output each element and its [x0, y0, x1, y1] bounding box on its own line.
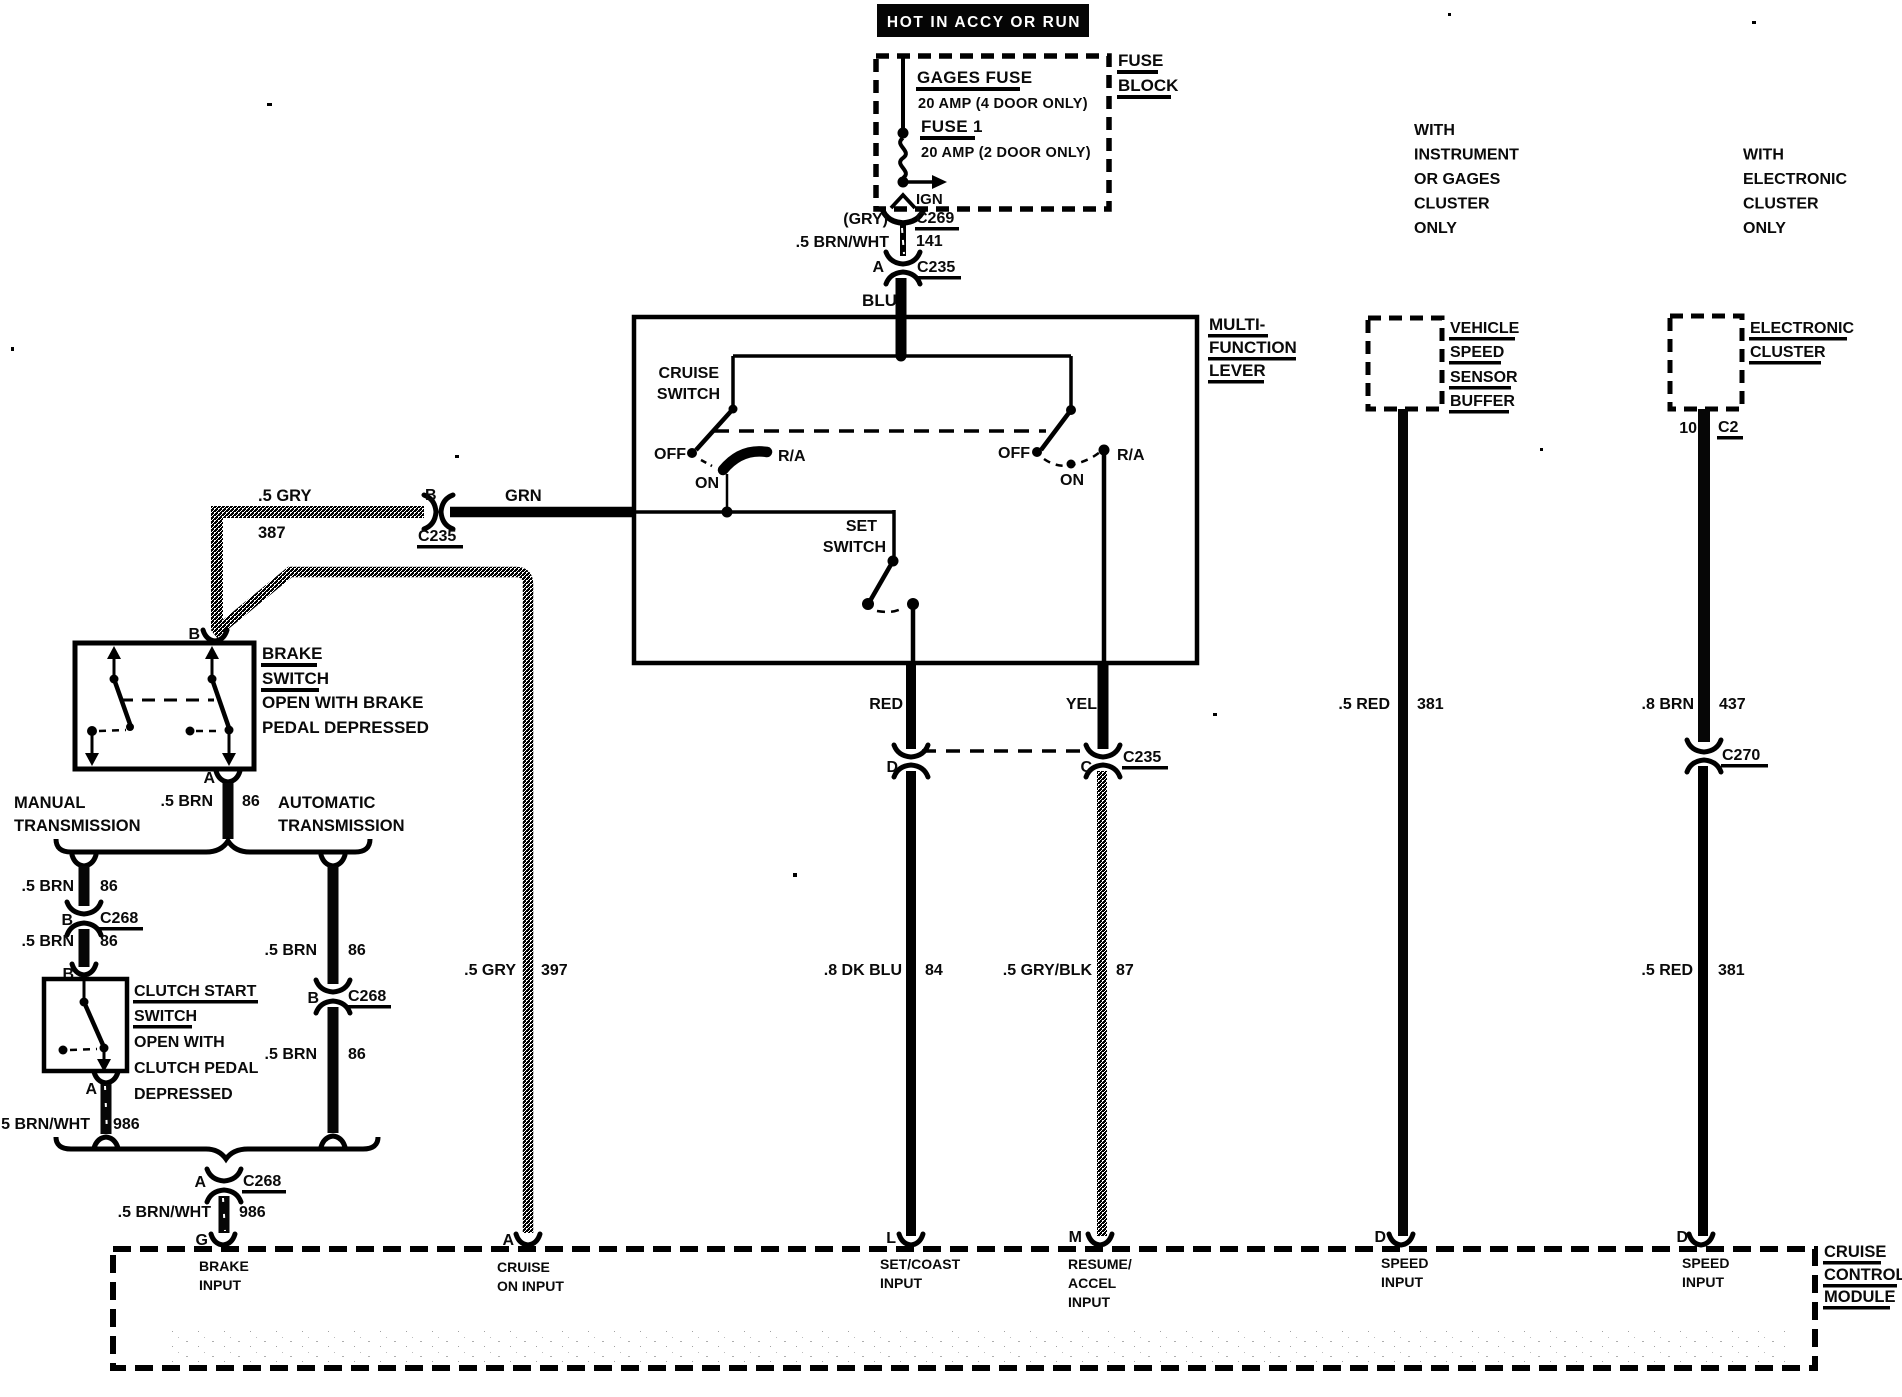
svg-text:.5 BRN/WHT: .5 BRN/WHT: [796, 234, 890, 251]
wire BLU: [862, 278, 901, 356]
label CRUISE CONTROL MODULE: [1823, 1243, 1902, 1310]
fuse output arrow: [905, 175, 947, 189]
wire dashed connector tie: [922, 749, 1090, 753]
terminal D speed input buffer: [1374, 1229, 1428, 1290]
switch cruise on/off right: [1032, 405, 1110, 469]
svg-text:.5 RED: .5 RED: [1338, 696, 1390, 713]
svg-text:.5 GRY/BLK: .5 GRY/BLK: [1003, 962, 1093, 979]
svg-text:.5 BRN: .5 BRN: [161, 793, 213, 810]
wire feed inside fuse block: [901, 58, 905, 130]
svg-text:397: 397: [541, 962, 568, 979]
svg-text:B: B: [307, 990, 319, 1007]
label AUTOMATIC TRANSMISSION: [278, 794, 405, 835]
svg-text:437: 437: [1719, 696, 1746, 713]
svg-text:HOT IN ACCY OR RUN: HOT IN ACCY OR RUN: [887, 14, 1081, 31]
fuse block label: [1117, 51, 1179, 99]
svg-text:C268: C268: [243, 1173, 281, 1190]
terminal A cruise on input: [497, 1232, 564, 1294]
fuse block box: [876, 56, 1109, 209]
svg-text:.5 BRN/WHT: .5 BRN/WHT: [0, 1116, 90, 1133]
svg-text:AUTOMATIC: AUTOMATIC: [278, 794, 376, 812]
label FUSE 1: [920, 117, 983, 140]
svg-text:C268: C268: [348, 988, 386, 1005]
vehicle speed sensor buffer box: [1368, 318, 1442, 409]
svg-text:SWITCH: SWITCH: [823, 539, 886, 556]
connector C269: [796, 210, 959, 251]
svg-text:A: A: [194, 1174, 206, 1191]
wire .5 BRN 86 manual upper: [22, 866, 118, 906]
terminal 10 C2: [1679, 419, 1743, 440]
label .5 GRY 397: [464, 962, 568, 979]
svg-text:C: C: [1080, 759, 1092, 776]
label CRUISE SWITCH: [657, 365, 720, 403]
svg-text:.5 BRN/WHT: .5 BRN/WHT: [118, 1204, 212, 1221]
svg-text:RESUME/: RESUME/: [1068, 1256, 1132, 1272]
svg-text:86: 86: [100, 933, 118, 950]
svg-text:SENSOR: SENSOR: [1450, 369, 1518, 386]
svg-text:BUFFER: BUFFER: [1450, 393, 1515, 410]
svg-text:WITH: WITH: [1414, 122, 1455, 139]
wire .5 BRN/WHT 986 output: [118, 1196, 266, 1233]
svg-text:VEHICLE: VEHICLE: [1450, 320, 1520, 337]
svg-text:86: 86: [100, 878, 118, 895]
svg-text:CLUTCH START: CLUTCH START: [134, 983, 257, 1000]
svg-text:CRUISE: CRUISE: [1824, 1243, 1886, 1261]
svg-text:ON INPUT: ON INPUT: [497, 1278, 564, 1294]
stray scan marks: [11, 13, 1756, 1192]
connector B brake switch: [188, 626, 227, 643]
svg-text:IGN: IGN: [916, 191, 943, 208]
svg-text:.5 BRN: .5 BRN: [22, 878, 74, 895]
switch brake left pole: [85, 646, 134, 766]
svg-text:CLUTCH PEDAL: CLUTCH PEDAL: [134, 1060, 259, 1077]
wire YEL: [1066, 663, 1103, 749]
svg-text:20 AMP (4 DOOR ONLY): 20 AMP (4 DOOR ONLY): [918, 96, 1088, 112]
svg-text:FUNCTION: FUNCTION: [1209, 338, 1297, 357]
svg-text:PEDAL DEPRESSED: PEDAL DEPRESSED: [262, 718, 429, 737]
connector C235 pin B: [424, 495, 453, 529]
switch set: [862, 556, 919, 612]
svg-text:D: D: [1374, 1229, 1386, 1246]
connector A brake switch: [203, 770, 240, 787]
svg-text:C268: C268: [100, 910, 138, 927]
svg-text:986: 986: [113, 1116, 140, 1133]
svg-text:ACCEL: ACCEL: [1068, 1275, 1117, 1291]
svg-text:A: A: [872, 259, 884, 276]
svg-text:TRANSMISSION: TRANSMISSION: [14, 817, 141, 835]
label CLUTCH START SWITCH: [133, 983, 259, 1103]
svg-text:20 AMP (2 DOOR ONLY): 20 AMP (2 DOOR ONLY): [921, 145, 1091, 161]
connector manual branch bottom: [94, 1137, 118, 1148]
node cruise-on junction: [722, 507, 733, 518]
switch brake right pole: [186, 646, 237, 766]
svg-text:YEL: YEL: [1066, 696, 1097, 713]
svg-text:MANUAL: MANUAL: [14, 794, 86, 812]
power label HOT IN ACCY OR RUN: [877, 4, 1089, 37]
svg-text:GAGES FUSE: GAGES FUSE: [917, 68, 1032, 87]
connector C268 pin A: [194, 1169, 286, 1202]
svg-text:OFF: OFF: [654, 446, 686, 463]
svg-text:D: D: [1676, 1229, 1688, 1246]
svg-text:WITH: WITH: [1743, 147, 1784, 164]
svg-text:(GRY): (GRY): [843, 211, 888, 228]
connector A clutch start switch: [85, 1072, 118, 1098]
svg-text:INPUT: INPUT: [199, 1277, 241, 1293]
svg-text:INPUT: INPUT: [880, 1275, 922, 1291]
svg-text:B: B: [425, 487, 437, 504]
wire R/A output: [1102, 452, 1107, 661]
brace split top: [56, 839, 370, 852]
terminal G brake input: [196, 1232, 249, 1293]
svg-text:SWITCH: SWITCH: [262, 669, 329, 688]
connector automatic branch top: [321, 855, 345, 866]
label WITH ELECTRONIC CLUSTER ONLY: [1743, 147, 1847, 238]
svg-text:ONLY: ONLY: [1743, 220, 1786, 237]
svg-text:387: 387: [258, 524, 286, 542]
electronic cluster box: [1670, 316, 1742, 409]
svg-text:BRAKE: BRAKE: [262, 644, 322, 663]
svg-text:.5 BRN: .5 BRN: [22, 933, 74, 950]
switch cruise on/off left: [687, 405, 738, 467]
svg-text:84: 84: [925, 962, 943, 979]
svg-text:86: 86: [242, 793, 260, 810]
svg-text:B: B: [61, 912, 73, 929]
connector C270: [1687, 740, 1768, 772]
svg-text:CLUSTER: CLUSTER: [1414, 196, 1490, 213]
svg-text:C270: C270: [1722, 747, 1760, 764]
connector automatic branch bottom: [321, 1136, 345, 1147]
svg-text:G: G: [196, 1232, 208, 1249]
svg-text:ON: ON: [695, 475, 719, 492]
wire .5 GRY/BLK 87: [1003, 771, 1134, 1236]
svg-text:TRANSMISSION: TRANSMISSION: [278, 817, 405, 835]
svg-text:INSTRUMENT: INSTRUMENT: [1414, 147, 1519, 164]
svg-text:BLU: BLU: [862, 291, 897, 310]
svg-text:D: D: [886, 759, 898, 776]
wire .5 BRN 86 stem: [161, 783, 260, 839]
wire dashed linkage: [714, 429, 1046, 433]
wire GRN: [450, 487, 634, 512]
svg-text:.8 DK BLU: .8 DK BLU: [824, 962, 902, 979]
svg-text:C235: C235: [917, 259, 955, 276]
label VEHICLE SPEED SENSOR BUFFER: [1449, 320, 1520, 414]
clutch start switch box S2: [44, 979, 127, 1071]
wire brake linkage dashed: [120, 699, 214, 702]
label SET SWITCH: [823, 518, 886, 556]
svg-text:LEVER: LEVER: [1209, 361, 1266, 380]
connector C268 pin B automatic: [307, 980, 391, 1013]
svg-text:R/A: R/A: [778, 448, 806, 465]
svg-text:CRUISE: CRUISE: [659, 365, 720, 382]
scan speckle band: [170, 1330, 1790, 1364]
svg-text:SWITCH: SWITCH: [657, 386, 720, 403]
connector C268 pin B manual: [61, 902, 143, 935]
label MULTI-FUNCTION LEVER: [1208, 315, 1297, 384]
svg-text:86: 86: [348, 1046, 366, 1063]
svg-text:L: L: [886, 1230, 896, 1247]
multi-function lever box U2: [634, 317, 1197, 663]
switch clutch start: [59, 981, 112, 1072]
node BLU feed junction: [896, 351, 907, 362]
svg-text:M: M: [1069, 1229, 1082, 1246]
cruise control module box: [113, 1249, 1815, 1368]
svg-text:ON: ON: [1060, 472, 1084, 489]
svg-text:GRN: GRN: [505, 487, 542, 505]
svg-text:SPEED: SPEED: [1381, 1255, 1428, 1271]
wire set output: [911, 604, 916, 661]
svg-text:CLUSTER: CLUSTER: [1750, 344, 1826, 361]
svg-text:141: 141: [916, 233, 943, 250]
wire set switch drop: [892, 510, 896, 556]
svg-text:FUSE 1: FUSE 1: [921, 117, 983, 136]
svg-text:.5 BRN: .5 BRN: [265, 942, 317, 959]
svg-text:C269: C269: [916, 210, 954, 227]
svg-text:OR GAGES: OR GAGES: [1414, 171, 1501, 188]
svg-text:BLOCK: BLOCK: [1118, 76, 1179, 95]
switch R/A arc left: [723, 451, 767, 470]
svg-text:ELECTRONIC: ELECTRONIC: [1750, 320, 1854, 337]
terminal IGN: [891, 191, 943, 208]
svg-text:A: A: [502, 1232, 514, 1249]
svg-text:381: 381: [1417, 696, 1444, 713]
svg-text:INPUT: INPUT: [1682, 1274, 1724, 1290]
svg-text:381: 381: [1718, 962, 1745, 979]
wire .5 RED 381 cluster: [1641, 766, 1744, 1236]
wire RED: [869, 663, 911, 749]
svg-text:INPUT: INPUT: [1068, 1294, 1110, 1310]
label MANUAL TRANSMISSION: [14, 794, 141, 835]
terminal M resume/accel input: [1068, 1229, 1132, 1310]
connector B clutch start switch: [62, 964, 96, 983]
svg-text:SWITCH: SWITCH: [134, 1008, 197, 1025]
connector manual branch top: [72, 855, 96, 866]
svg-text:C2: C2: [1718, 419, 1739, 436]
connector C235 pin D: [886, 745, 928, 777]
connector C235 pin C: [1080, 745, 1168, 777]
wire right drop: [1069, 356, 1073, 407]
svg-text:RED: RED: [869, 696, 903, 713]
svg-text:FUSE: FUSE: [1118, 51, 1163, 70]
svg-text:CRUISE: CRUISE: [497, 1259, 550, 1275]
svg-text:.5 RED: .5 RED: [1641, 962, 1693, 979]
wire .5 BRN/WHT 986 manual: [0, 1084, 140, 1134]
svg-text:MULTI-: MULTI-: [1209, 315, 1265, 334]
svg-text:B: B: [188, 626, 200, 643]
terminal L set/coast input: [880, 1230, 961, 1291]
wire cruise-on branch: [214, 572, 528, 1233]
svg-text:A: A: [203, 770, 215, 787]
label WITH INSTRUMENT OR GAGES CLUSTER ONLY: [1414, 122, 1519, 237]
wire top rail: [733, 354, 1071, 358]
svg-text:SPEED: SPEED: [1450, 344, 1504, 361]
svg-text:86: 86: [348, 942, 366, 959]
svg-text:CLUSTER: CLUSTER: [1743, 196, 1819, 213]
svg-text:A: A: [85, 1081, 97, 1098]
svg-text:MODULE: MODULE: [1824, 1288, 1896, 1306]
wire .5 BRN 86 automatic upper: [265, 866, 366, 984]
svg-text:SPEED: SPEED: [1682, 1255, 1729, 1271]
svg-text:.5 GRY: .5 GRY: [258, 487, 312, 505]
svg-text:INPUT: INPUT: [1381, 1274, 1423, 1290]
wire .8 DK BLU 84: [824, 771, 943, 1236]
connector C235 pin A: [872, 252, 961, 284]
svg-text:ELECTRONIC: ELECTRONIC: [1743, 171, 1847, 188]
wire .5 RED 381 buffer: [1338, 409, 1443, 1236]
label B C235: [417, 487, 463, 549]
wire .8 BRN 437: [1642, 409, 1746, 742]
wire .5 BRN 86 automatic lower: [265, 1007, 366, 1133]
svg-text:OPEN WITH BRAKE: OPEN WITH BRAKE: [262, 693, 424, 712]
svg-text:DEPRESSED: DEPRESSED: [134, 1086, 233, 1103]
label GAGES FUSE: [916, 68, 1032, 91]
wire lower rail: [634, 510, 894, 514]
svg-text:BRAKE: BRAKE: [199, 1258, 249, 1274]
svg-text:.5 BRN: .5 BRN: [265, 1046, 317, 1063]
wire ON stem left: [726, 474, 729, 512]
wire .5 BRN 86 manual lower: [22, 929, 118, 967]
svg-text:OFF: OFF: [998, 445, 1030, 462]
fuse GAGES FUSE / FUSE 1: [898, 128, 909, 188]
brace merge bottom: [56, 1137, 378, 1159]
label BRAKE SWITCH: [261, 644, 429, 737]
svg-text:R/A: R/A: [1117, 447, 1145, 464]
svg-text:OPEN WITH: OPEN WITH: [134, 1034, 225, 1051]
svg-text:SET/COAST: SET/COAST: [880, 1256, 961, 1272]
svg-text:C235: C235: [418, 528, 456, 545]
terminal D speed input cluster: [1676, 1229, 1729, 1290]
wire left drop: [731, 356, 735, 406]
svg-text:C235: C235: [1123, 749, 1161, 766]
svg-text:986: 986: [239, 1204, 266, 1221]
label ELECTRONIC CLUSTER: [1749, 320, 1854, 365]
svg-text:10: 10: [1679, 420, 1697, 437]
svg-text:ONLY: ONLY: [1414, 220, 1457, 237]
svg-text:CONTROL: CONTROL: [1824, 1266, 1902, 1284]
svg-text:87: 87: [1116, 962, 1134, 979]
svg-text:.8 BRN: .8 BRN: [1642, 696, 1694, 713]
brake switch box S1: [75, 643, 254, 769]
wire .5 GRY 387: [217, 487, 424, 628]
wire 141 stub: [900, 225, 906, 256]
svg-text:.5 GRY: .5 GRY: [464, 962, 516, 979]
svg-text:SET: SET: [846, 518, 877, 535]
